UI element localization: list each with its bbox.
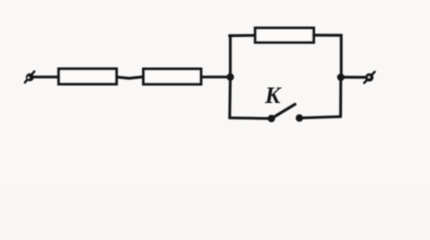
node A (left junction) [227, 73, 234, 80]
wire node A down to bottom-left corner [228, 77, 231, 118]
resistor R1 [59, 69, 117, 84]
wire switch to bottom-right corner [299, 117, 340, 118]
wire R2 to node A [201, 76, 230, 79]
svg-text:K: K [264, 83, 282, 108]
wire bottom-right corner up to node B [339, 77, 342, 116]
resistor R3 [255, 28, 314, 42]
terminal T2 (right output) [364, 72, 375, 83]
terminal T1 (left input) [25, 72, 34, 83]
wire top-left corner to R3 [230, 34, 256, 37]
wire R3 to top-right corner down to node B [314, 35, 342, 77]
wire bottom-left corner to switch [230, 117, 272, 120]
resistor R2 [143, 69, 201, 84]
switch K (open) [268, 104, 303, 122]
wire node A up to top-left corner [229, 36, 232, 77]
wire R1 to R2 [117, 77, 144, 79]
wire T1 to R1 [34, 76, 59, 79]
wire node B to terminal T2 [341, 76, 365, 79]
node B (right junction) [337, 74, 344, 81]
